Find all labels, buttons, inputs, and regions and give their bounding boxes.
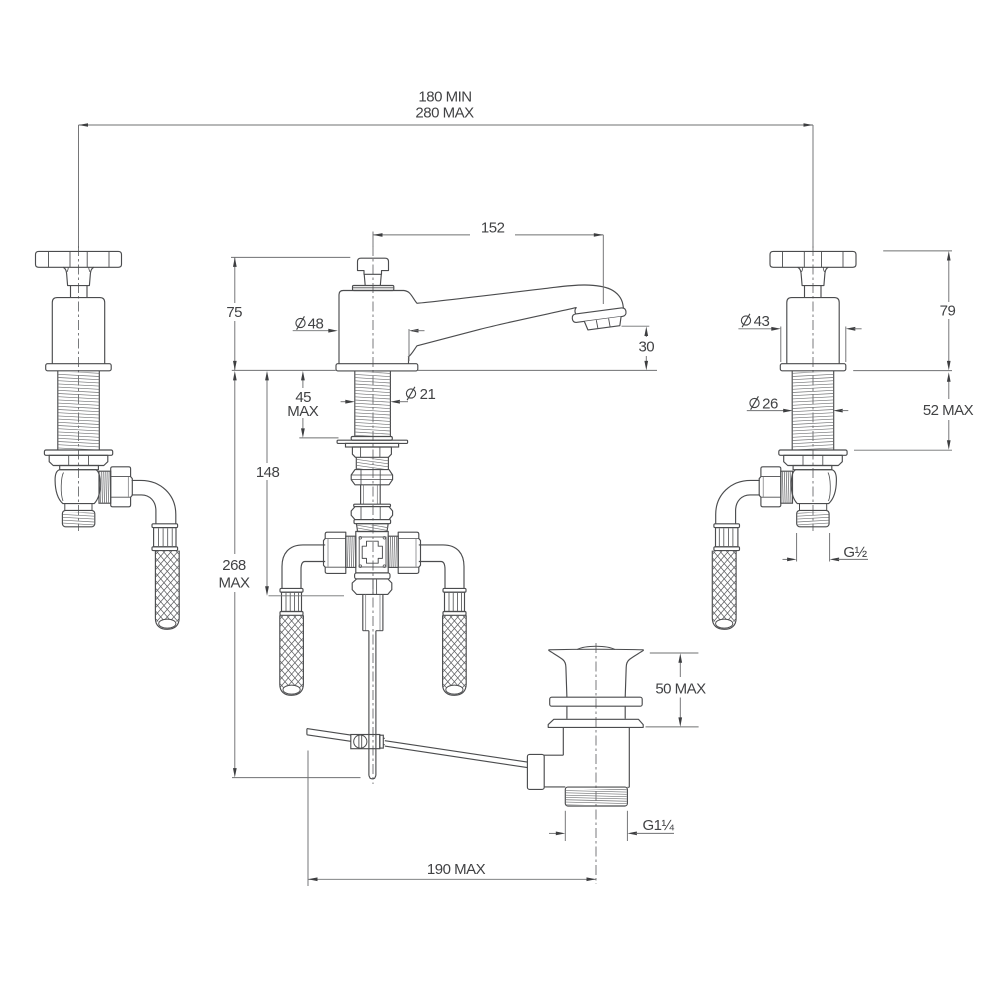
tee bottom flare <box>355 573 390 579</box>
deck reference line left <box>232 369 336 371</box>
waste body bottom <box>627 786 629 788</box>
compression nut 1 <box>351 470 392 485</box>
svg-text:190 MAX: 190 MAX <box>427 861 486 878</box>
tee left olive <box>346 536 356 567</box>
pop-up tailpiece <box>362 594 364 630</box>
extension line left <box>78 125 80 248</box>
dim 79 <box>948 255 950 302</box>
braided hose <box>155 551 179 630</box>
dim line 180/280 <box>79 124 814 126</box>
tap threaded shank <box>354 371 356 437</box>
lever rod right <box>385 741 528 768</box>
dim 268 MAX <box>234 375 236 555</box>
G1/2 outlet tail <box>65 504 92 511</box>
spout under edge <box>408 308 576 358</box>
valve body <box>55 470 100 504</box>
bonnet body <box>52 298 104 364</box>
left elbow tube <box>282 545 325 589</box>
tee block <box>356 532 388 573</box>
svg-text:79: 79 <box>940 303 956 320</box>
knob neck <box>364 274 381 285</box>
bonnet body <box>787 298 839 364</box>
nut collar <box>793 466 832 470</box>
dim phi26 <box>750 398 759 407</box>
shank collar ring <box>351 437 392 441</box>
tap body flange <box>336 364 418 371</box>
dim phi43 <box>741 316 750 325</box>
bonnet flange <box>780 364 846 371</box>
svg-text:152: 152 <box>481 220 505 237</box>
tee right olive <box>388 536 398 567</box>
svg-text:30: 30 <box>638 339 654 356</box>
handle stem <box>820 286 822 298</box>
svg-text:50 MAX: 50 MAX <box>655 680 706 697</box>
handle hub <box>63 267 94 285</box>
hose collar <box>714 524 740 528</box>
svg-text:MAX: MAX <box>287 403 319 420</box>
tee left nut <box>324 532 346 573</box>
waste body <box>562 727 564 755</box>
svg-text:G½: G½ <box>843 544 867 561</box>
dim 75 <box>234 257 236 303</box>
compression hex nut <box>111 467 133 507</box>
svg-text:43: 43 <box>754 313 770 330</box>
svg-text:48: 48 <box>308 316 324 333</box>
valve centerline <box>78 246 80 531</box>
locknut <box>352 447 391 457</box>
lever rod left <box>307 729 351 742</box>
G1/2 outlet tail <box>800 504 827 511</box>
shank lower flange <box>44 450 112 455</box>
backnut <box>49 455 108 465</box>
svg-text:G1¼: G1¼ <box>642 817 674 834</box>
dim G1/2 <box>796 533 798 562</box>
waste body between rings <box>566 706 568 719</box>
spout (filled to occlude body edge) <box>404 285 624 363</box>
threaded shank <box>57 371 59 450</box>
tee right nut <box>398 532 420 573</box>
tap knob <box>358 258 389 274</box>
spout top edge <box>404 285 624 309</box>
rod clamp block <box>351 735 380 749</box>
svg-text:280 MAX: 280 MAX <box>415 105 474 122</box>
left braided hose <box>280 615 304 695</box>
nut collar <box>60 466 99 470</box>
waste threaded tail <box>565 787 627 806</box>
valve body <box>791 470 836 504</box>
tee inner cross <box>362 541 382 563</box>
flare ring <box>354 520 391 524</box>
braided hose <box>712 551 736 630</box>
deck flange plate <box>337 440 408 443</box>
waste side inlet <box>544 754 563 756</box>
waste centerline <box>595 643 597 884</box>
svg-text:180 MIN: 180 MIN <box>418 89 471 106</box>
left hose collar <box>280 588 303 592</box>
dim 45 MAX <box>302 375 304 389</box>
cross handle (side view) <box>770 251 856 267</box>
svg-text:21: 21 <box>420 386 436 403</box>
waste upper ring <box>550 697 643 706</box>
hose collar <box>152 524 178 528</box>
compression hex nut <box>759 467 781 507</box>
deck reference line right <box>418 369 657 371</box>
waste lower ring <box>548 719 643 727</box>
svg-text:268: 268 <box>222 557 246 574</box>
bonnet flange <box>46 364 112 371</box>
dim 148 <box>266 375 268 464</box>
dim G1 1/4 <box>564 811 566 841</box>
svg-text:52 MAX: 52 MAX <box>923 402 974 419</box>
compression nut 2 <box>354 504 391 506</box>
pop-up rod <box>368 631 370 776</box>
dim phi21 <box>406 389 415 398</box>
right elbow tube <box>419 545 464 589</box>
dim 52 MAX <box>948 377 950 400</box>
dim 152 <box>373 234 470 236</box>
backnut <box>784 455 843 465</box>
tap body <box>339 291 404 364</box>
connector tube <box>360 485 362 504</box>
threaded adapter <box>356 524 388 532</box>
waste top flange (funnel) <box>548 648 643 651</box>
dim phi48 <box>296 318 305 327</box>
right braided hose <box>443 615 467 695</box>
threaded shank <box>833 371 835 450</box>
spout outlet (tilted end) <box>572 307 628 331</box>
dim 50 MAX <box>650 652 699 654</box>
handle hub <box>798 267 829 285</box>
knob flange <box>353 286 394 291</box>
compression olive <box>781 471 793 503</box>
right hose collar <box>443 588 466 592</box>
svg-text:MAX: MAX <box>218 575 250 592</box>
lower thread <box>355 457 357 469</box>
tee bottom nut <box>352 579 392 595</box>
handle stem <box>70 286 72 298</box>
compression olive <box>99 471 111 503</box>
deck flange step <box>346 443 399 447</box>
svg-text:75: 75 <box>226 304 242 321</box>
svg-text:148: 148 <box>256 464 280 481</box>
elbow tube <box>716 480 760 523</box>
clamp end bracket <box>380 735 384 748</box>
extension line right <box>812 125 814 248</box>
cross handle (side view) <box>36 251 122 267</box>
tap centerline <box>372 246 374 784</box>
shank lower flange <box>779 450 847 455</box>
dim 190 MAX <box>308 878 596 880</box>
svg-text:26: 26 <box>762 396 778 413</box>
valve centerline <box>812 246 814 531</box>
dim 30 <box>645 331 647 338</box>
waste plug dome <box>577 646 615 649</box>
elbow tube <box>132 480 176 523</box>
